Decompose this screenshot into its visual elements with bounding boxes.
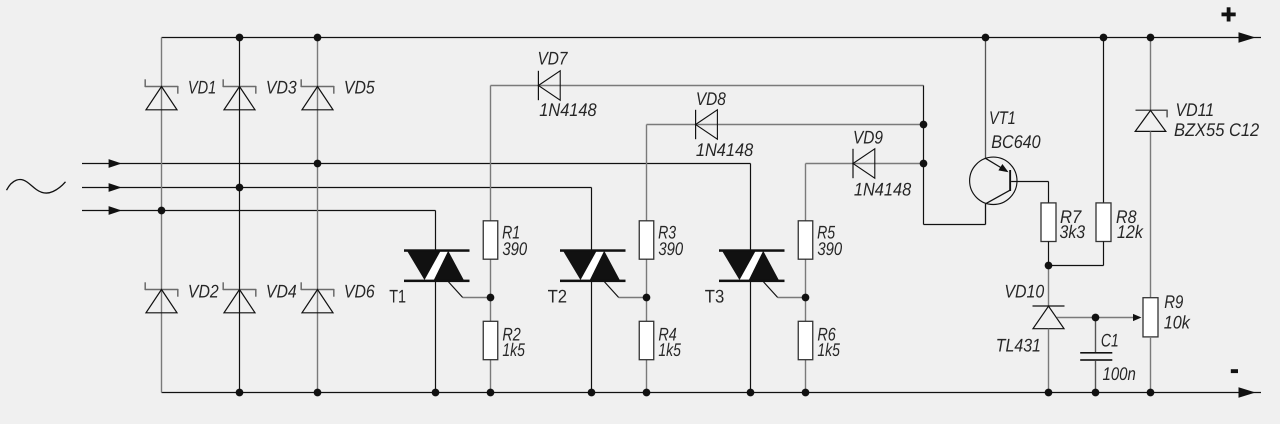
wire R5/R6 column [805, 164, 807, 393]
diode VD2 [145, 282, 178, 313]
potentiometer R9 [1143, 298, 1158, 337]
resistor R6 [798, 321, 813, 359]
svg-text:VD11: VD11 [1176, 99, 1215, 120]
resistor R7 [1041, 203, 1056, 242]
node - label [1231, 369, 1238, 373]
junction dot C1 ref [1092, 314, 1100, 322]
triac T2 [560, 249, 626, 282]
svg-text:VD6: VD6 [344, 280, 376, 301]
wire middle bridge column [239, 38, 241, 393]
junction dot R7/R8 join [1045, 262, 1053, 270]
diode VD3 [223, 79, 256, 110]
svg-text:390: 390 [658, 238, 683, 259]
svg-text:VD3: VD3 [266, 76, 297, 97]
diode VD1 [145, 79, 178, 110]
diode VD7 [538, 71, 560, 100]
diode VD5 [301, 79, 334, 110]
wire VD11/R9 column from + rail [1150, 38, 1152, 111]
AC source symbol [7, 180, 66, 193]
svg-text:1k5: 1k5 [502, 339, 525, 360]
svg-text:VD5: VD5 [344, 76, 376, 97]
svg-text:VD4: VD4 [266, 280, 297, 301]
svg-text:BC640: BC640 [991, 131, 1041, 152]
transistor VT1 [970, 157, 1017, 224]
wire VT1 emitter from + rail [985, 38, 987, 159]
node + label [1222, 7, 1236, 21]
svg-text:VD9: VD9 [853, 127, 883, 148]
wire VD8 line [647, 124, 924, 126]
wire gate of T1 [449, 282, 491, 298]
wire R9 to - rail [1150, 337, 1152, 393]
svg-text:1k5: 1k5 [658, 339, 681, 360]
svg-text:TL431: TL431 [996, 334, 1041, 355]
triac T1 [404, 249, 470, 282]
wire phase line L1 [82, 159, 751, 168]
diode VD4 [223, 282, 256, 313]
svg-text:1N4148: 1N4148 [854, 179, 912, 200]
svg-text:12k: 12k [1117, 221, 1144, 242]
svg-text:T2: T2 [548, 286, 568, 307]
wire R8 from + rail [1103, 38, 1105, 203]
svg-text:1k5: 1k5 [817, 339, 840, 360]
resistor R4 [639, 321, 654, 359]
diode VD11 [1135, 110, 1167, 132]
wire negative bottom rail [162, 387, 1262, 398]
svg-text:VD8: VD8 [696, 88, 727, 109]
wire VD10 anode to - rail [1048, 329, 1050, 393]
wire positive top rail [162, 32, 1262, 43]
svg-text:C1: C1 [1101, 329, 1119, 350]
wire phase line L2 [82, 183, 592, 192]
svg-text:VD1: VD1 [188, 76, 216, 97]
svg-text:VD2: VD2 [188, 280, 219, 301]
svg-text:R9: R9 [1164, 291, 1183, 312]
svg-text:1N4148: 1N4148 [539, 99, 597, 120]
triac T3 [719, 249, 785, 282]
wire left bridge column [161, 38, 163, 393]
svg-text:3k3: 3k3 [1060, 221, 1086, 242]
capacitor C1 [1080, 352, 1112, 361]
wire VD9 line [806, 163, 924, 165]
wire collector bus vertical [923, 86, 925, 225]
wire gate of T2 [605, 282, 647, 298]
resistor R5 [798, 221, 813, 259]
wire C1 top [1095, 318, 1097, 353]
svg-text:VD7: VD7 [538, 47, 569, 68]
svg-text:390: 390 [817, 238, 842, 259]
diode VD8 [696, 110, 718, 139]
diode VD9 [853, 149, 875, 178]
svg-text:T3: T3 [705, 286, 725, 307]
wire R7/R8 join [1049, 242, 1104, 266]
wire collector to VT1 [924, 224, 986, 226]
resistor R3 [639, 221, 654, 259]
wire TL431 ref line [1057, 314, 1142, 321]
wire gate of T3 [764, 282, 806, 298]
svg-text:VD10: VD10 [1004, 280, 1045, 301]
svg-text:390: 390 [502, 238, 527, 259]
junction dots top rail [236, 34, 1155, 42]
junction dots bottom rail [236, 389, 1155, 397]
wire VT1 base to R7 [1011, 182, 1048, 203]
wire phase L2 drop to T2 [591, 188, 593, 393]
wire R1/R2 column [490, 86, 492, 393]
wire C1 bottom [1095, 361, 1097, 393]
wire phase L1 drop to T3 [750, 164, 752, 393]
svg-text:10k: 10k [1164, 311, 1191, 332]
svg-text:1N4148: 1N4148 [696, 139, 754, 160]
junction dots gates [487, 294, 810, 302]
junction dots collector bus [920, 121, 928, 168]
wire VD7 line [491, 85, 924, 87]
resistor R2 [483, 321, 498, 359]
diode VD10 TL431 [1033, 306, 1065, 329]
wire VD11 to R9 [1150, 131, 1152, 297]
wire phase L3 drop to T1 [435, 211, 437, 393]
diode VD6 [301, 282, 334, 313]
svg-text:T1: T1 [389, 286, 406, 307]
wire phase line L3 [82, 206, 436, 215]
svg-text:VT1: VT1 [989, 107, 1016, 128]
resistor R1 [483, 221, 498, 259]
wire R7 join to VD10 [1048, 266, 1050, 307]
junction dots phase lines [158, 160, 322, 215]
resistor R8 [1096, 203, 1111, 242]
svg-text:100n: 100n [1103, 363, 1136, 384]
wire R3/R4 column [646, 125, 648, 393]
svg-text:BZX55 C12: BZX55 C12 [1174, 119, 1259, 140]
wire right bridge column [317, 38, 319, 393]
